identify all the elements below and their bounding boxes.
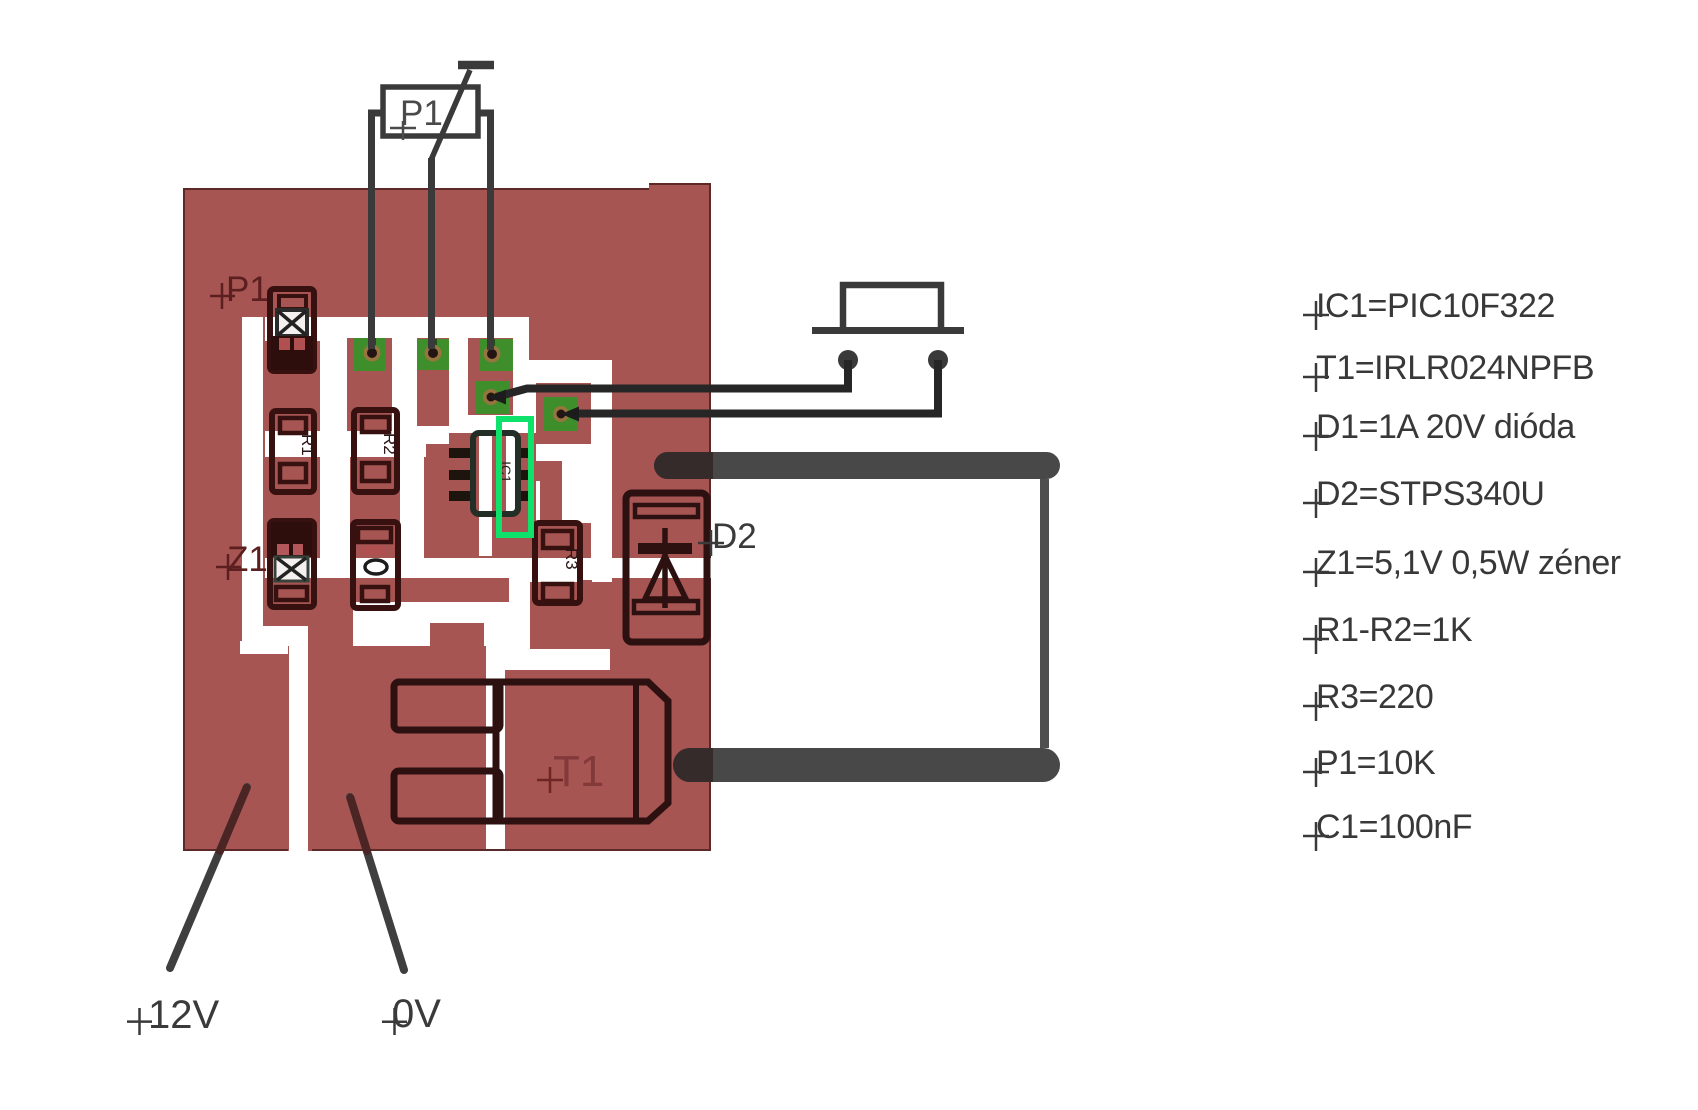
resistor R1 xyxy=(272,411,317,492)
wire channel band R1 R2 row xyxy=(265,431,449,457)
wire channel above IC xyxy=(460,415,510,433)
label P1 pcb xyxy=(210,270,269,309)
net island col4 pad3-pad4 xyxy=(468,338,513,415)
net island col3 pad2 trace xyxy=(417,338,449,426)
green pad S1-a xyxy=(476,381,509,414)
label D2 pcb xyxy=(698,517,757,556)
callout line 12V xyxy=(170,787,247,968)
wire pot left lead xyxy=(372,113,385,349)
svg-text:R3: R3 xyxy=(562,548,581,570)
wire channel below C1 xyxy=(353,602,430,646)
wire channel under Z1 xyxy=(263,626,307,646)
svg-text:P1=10K: P1=10K xyxy=(1316,744,1436,782)
net island 0V plane xyxy=(308,646,486,851)
motor body right link xyxy=(1040,479,1049,748)
wire channel above 0V arm xyxy=(430,602,509,623)
net island R3 bottom xyxy=(580,580,592,607)
net island IC pin pads xyxy=(426,444,449,462)
label 0V xyxy=(382,992,441,1036)
motor terminal bar bottom xyxy=(673,748,1060,782)
capacitor C1 xyxy=(353,522,398,608)
wire channel left of R3 bottom island xyxy=(494,602,530,649)
wire channel gap col2-IC lower xyxy=(400,457,424,558)
green pad P1-1 xyxy=(354,338,385,371)
wire channel h2 below R3 island xyxy=(504,649,610,670)
legend component list xyxy=(1316,287,1621,846)
svg-text:12V: 12V xyxy=(148,993,219,1037)
wire switch right to pad S1-b xyxy=(578,360,938,414)
svg-text:0V: 0V xyxy=(392,992,441,1036)
label Z1 pcb xyxy=(216,540,268,580)
resistor R2 xyxy=(354,410,399,492)
wire channel right of trace row xyxy=(509,578,530,602)
svg-text:D2=STPS340U: D2=STPS340U xyxy=(1316,475,1544,513)
PCB copper plane (12V outer plane) xyxy=(183,183,711,851)
svg-text:R3=220: R3=220 xyxy=(1316,678,1433,716)
green pad P1-3 xyxy=(480,339,513,371)
IC highlight green box xyxy=(499,419,531,535)
svg-text:D1=1A 20V dióda: D1=1A 20V dióda xyxy=(1316,408,1575,446)
wire channel right of 0V arm xyxy=(484,623,509,646)
net island Z1 bottom xyxy=(265,578,312,626)
legend origin crosses xyxy=(1303,301,1329,851)
wire channel behind D2 to board edge xyxy=(612,558,711,578)
diode D2 xyxy=(626,493,707,642)
svg-text:C1=100nF: C1=100nF xyxy=(1316,808,1472,846)
svg-text:R1-R2=1K: R1-R2=1K xyxy=(1316,611,1473,649)
net island R3 top xyxy=(540,481,562,523)
wire channel gap col1-col2 lower xyxy=(320,457,350,558)
potentiometer P1 symbol xyxy=(372,65,495,350)
transistor T1 DPAK xyxy=(394,682,668,821)
net island central column 0V xyxy=(311,578,353,851)
svg-text:Z1=5,1V 0,5W zéner: Z1=5,1V 0,5W zéner xyxy=(1316,544,1621,582)
net island col1 R1-Z1 xyxy=(265,457,320,558)
green pad P1-2 xyxy=(417,339,449,370)
net island IC zone backdrop xyxy=(449,433,536,558)
svg-text:R2: R2 xyxy=(380,433,399,455)
potentiometer body P1 xyxy=(383,87,478,136)
wire channel top horizontal B xyxy=(265,317,529,341)
copper islands (red) xyxy=(265,338,592,851)
callout line 0V xyxy=(350,797,404,970)
svg-text:IC1=PIC10F322: IC1=PIC10F322 xyxy=(1316,287,1555,325)
board edge thin outline xyxy=(183,183,711,851)
net island pad5 xyxy=(536,383,591,444)
net island col1 D1-R1 xyxy=(265,341,320,431)
IC U1 PIC10F322 xyxy=(449,433,534,514)
net island IC to R3 stub xyxy=(534,461,562,481)
svg-text:T1=IRLR024NPFB: T1=IRLR024NPFB xyxy=(1316,349,1594,387)
potentiometer wiper arrow xyxy=(431,70,470,160)
routed isolation channels (white) xyxy=(240,317,711,851)
wire channel band2 full width xyxy=(265,558,711,578)
net island col2 pad1-R2 xyxy=(347,338,392,431)
wire channel ch4 vertical xyxy=(486,646,505,851)
diode D1 xyxy=(270,289,314,371)
net island col2 R2-C1 xyxy=(350,457,400,558)
svg-text:P1: P1 xyxy=(400,94,443,133)
svg-text:T1: T1 xyxy=(553,747,604,796)
white strips through IC xyxy=(479,415,492,556)
svg-text:Z1: Z1 xyxy=(227,540,268,579)
wire pot wiper lead xyxy=(428,158,435,349)
wire switch left to pad S1-a xyxy=(496,360,848,397)
wire channel mid backdrop xyxy=(265,341,529,457)
net island trace row C1-R3 xyxy=(311,578,509,602)
wire channel jog A2 xyxy=(240,641,288,654)
wire channel right-middle backdrop xyxy=(510,360,612,582)
motor terminal bar top xyxy=(654,452,1060,479)
wire channel left vertical A xyxy=(242,317,263,646)
green pad S1-b xyxy=(544,397,578,431)
svg-text:D2: D2 xyxy=(712,517,757,556)
pushbutton switch S1 xyxy=(812,285,964,370)
label T1 pcb xyxy=(537,747,604,796)
label 12V xyxy=(127,993,219,1037)
resistor R3 xyxy=(535,523,581,603)
zener Z1 xyxy=(270,521,314,607)
svg-text:P1: P1 xyxy=(226,270,269,309)
wire pot right lead xyxy=(477,113,491,350)
svg-text:R1: R1 xyxy=(298,434,317,456)
wire channel B2 vertical divider xyxy=(289,626,308,851)
label P1 pot xyxy=(390,94,443,140)
net island 0V arm xyxy=(430,623,484,646)
